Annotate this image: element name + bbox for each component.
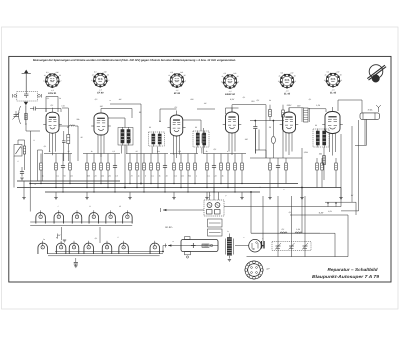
svg-text:2: 2 bbox=[184, 80, 186, 83]
Blaupunkt logo bbox=[367, 65, 386, 83]
wire bus y233 bbox=[251, 232, 320, 234]
svg-text:240: 240 bbox=[55, 71, 59, 74]
value label row 1 bbox=[42, 174, 44, 177]
value label row 11 bbox=[138, 174, 140, 177]
ground under left capacitor bbox=[20, 177, 23, 179]
measurement note text bbox=[33, 59, 236, 62]
value label row 6 bbox=[94, 174, 97, 177]
svg-text:b: b bbox=[228, 230, 229, 233]
wire transformer to rectifier bbox=[235, 245, 249, 247]
svg-text:0: 0 bbox=[221, 81, 222, 84]
vibrator chopper block bbox=[181, 237, 218, 259]
svg-text:300: 300 bbox=[87, 174, 90, 177]
svg-text:a: a bbox=[173, 241, 174, 243]
tube socket V4 (EABC 80) bbox=[221, 72, 239, 96]
svg-text:21V: 21V bbox=[250, 100, 255, 103]
svg-text:5k: 5k bbox=[42, 174, 44, 177]
ground g8 bbox=[268, 198, 271, 200]
svg-text:6,3: 6,3 bbox=[94, 71, 96, 74]
schematic border frame bbox=[9, 56, 391, 282]
trimmer dashed box bbox=[272, 242, 311, 251]
left verticals bbox=[37, 150, 39, 181]
svg-text:1k: 1k bbox=[279, 75, 281, 78]
car antenna mast bbox=[22, 70, 31, 92]
resistor R20 bbox=[206, 154, 209, 188]
svg-text:30: 30 bbox=[166, 174, 168, 177]
svg-text:2: 2 bbox=[117, 236, 119, 239]
Bf1 bottom stubs bbox=[151, 147, 153, 154]
svg-text:4: 4 bbox=[34, 183, 35, 186]
vibrator feeder verticals bbox=[209, 192, 211, 200]
wire arrow feed y245 bbox=[166, 244, 182, 248]
svg-text:Messungen der Spannungen und S: Messungen der Spannungen und Ströme wurd… bbox=[33, 59, 236, 62]
resistor R13 bbox=[150, 154, 153, 184]
resistor R23 bbox=[227, 154, 230, 188]
svg-text:Gl. 6V~: Gl. 6V~ bbox=[165, 226, 174, 229]
svg-text:0,5: 0,5 bbox=[95, 98, 98, 101]
value label row 2 bbox=[56, 174, 58, 177]
svg-text:35: 35 bbox=[81, 136, 83, 139]
wires from tube Rö2 pins bbox=[98, 135, 104, 157]
svg-text:2: 2 bbox=[59, 80, 61, 83]
svg-text:1k: 1k bbox=[92, 74, 94, 77]
choke bump 2 bbox=[295, 232, 302, 233]
svg-text:z: z bbox=[283, 189, 285, 191]
svg-text:6,3: 6,3 bbox=[171, 71, 173, 74]
svg-text:2: 2 bbox=[60, 246, 62, 249]
wire Rö1 side stub bbox=[46, 96, 58, 98]
value label 0,1 bbox=[51, 104, 54, 107]
wire under band filter bbox=[323, 147, 325, 180]
capacitor C3 bbox=[61, 154, 65, 193]
svg-text:4: 4 bbox=[93, 216, 94, 219]
trimmer T3 bbox=[302, 196, 308, 257]
bus junction dots bbox=[40, 183, 41, 184]
resistor R16 bbox=[173, 154, 176, 184]
value label row 13 bbox=[151, 174, 153, 177]
wire over Rö3 bbox=[160, 108, 177, 110]
svg-text:30: 30 bbox=[107, 74, 109, 77]
value label row 18 bbox=[188, 174, 191, 177]
svg-text:6,3V: 6,3V bbox=[230, 98, 235, 101]
svg-text:6,3: 6,3 bbox=[327, 71, 329, 74]
bus line y183.5 bbox=[30, 183, 298, 185]
wire row2 bus lines bbox=[55, 251, 163, 253]
electrolytic oval at 273 bbox=[272, 121, 274, 137]
value label row 7 bbox=[101, 174, 104, 177]
tube Rö2 bbox=[91, 113, 111, 135]
svg-text:2: 2 bbox=[340, 79, 342, 82]
wires from tube Rö5 pins bbox=[286, 133, 292, 155]
svg-text:8: 8 bbox=[145, 174, 146, 177]
choke coil L5 bbox=[302, 108, 310, 122]
value label 6,3V bbox=[230, 98, 235, 101]
resistor R30 bbox=[321, 158, 324, 188]
value label row 19 bbox=[196, 174, 197, 177]
value label 25 bbox=[268, 126, 272, 129]
ground row2 bbox=[74, 265, 77, 267]
ground g10 bbox=[339, 198, 342, 200]
svg-text:0: 0 bbox=[278, 80, 279, 83]
resistor R7 bbox=[100, 154, 103, 184]
value label row 4 bbox=[70, 174, 73, 177]
IF transformer Bf1 bbox=[149, 132, 165, 146]
ground g9 bbox=[300, 198, 303, 200]
rail under Rö1 bbox=[44, 153, 72, 155]
svg-text:50k: 50k bbox=[188, 174, 191, 177]
resistor R1 bbox=[40, 154, 43, 184]
plug arrow into receiver bbox=[24, 102, 28, 125]
svg-text:Blaupunkt-Autosuper 7 A 79: Blaupunkt-Autosuper 7 A 79 bbox=[312, 274, 380, 279]
value label 1M bbox=[245, 138, 248, 141]
value label row 20 bbox=[207, 174, 209, 177]
speaker socket bbox=[245, 261, 264, 280]
svg-text:240: 240 bbox=[179, 71, 183, 74]
svg-text:1k: 1k bbox=[222, 75, 224, 78]
resistor R6 bbox=[93, 154, 96, 193]
oscillator coil pack L2 bbox=[118, 128, 133, 146]
wire electrolytic up bbox=[262, 196, 264, 241]
coil pack K10 row2 bbox=[84, 241, 94, 254]
wire over Rö4 stub bbox=[226, 107, 239, 109]
connector dots near x330 bbox=[327, 202, 329, 204]
coil pack K9 row2 bbox=[69, 241, 79, 254]
svg-text:2: 2 bbox=[237, 81, 239, 84]
svg-text:6,3: 6,3 bbox=[281, 72, 283, 75]
svg-text:2: 2 bbox=[294, 80, 296, 83]
svg-text:0,1: 0,1 bbox=[51, 104, 54, 107]
rail under Rö5 bbox=[250, 157, 302, 159]
wires from tube Rö4 pins bbox=[229, 133, 235, 155]
svg-text:-1,5: -1,5 bbox=[99, 88, 102, 91]
value label 5k bbox=[159, 120, 162, 123]
svg-text:50k: 50k bbox=[77, 118, 80, 121]
coil pack K7 row2 bbox=[38, 241, 48, 254]
wire vertical x341 upper bbox=[340, 134, 342, 207]
wire left vertical to coil row bbox=[29, 181, 31, 212]
svg-text:0,1: 0,1 bbox=[44, 145, 47, 148]
wire vertical x302 long bbox=[301, 148, 303, 233]
bus line y181 bbox=[17, 180, 120, 182]
band filter Bf3 bbox=[313, 129, 329, 147]
svg-text:30: 30 bbox=[184, 74, 186, 77]
resistor R31 bbox=[335, 158, 338, 188]
wire row1 lower line bbox=[30, 225, 132, 227]
resistor R4 bbox=[69, 154, 72, 184]
Bf2 bottom stubs bbox=[196, 148, 198, 154]
wire vertical x365 from fuse bbox=[364, 120, 366, 146]
tube socket V3 (EF 89) bbox=[168, 71, 186, 95]
svg-text:0,5: 0,5 bbox=[115, 174, 117, 177]
svg-text:240: 240 bbox=[103, 71, 107, 74]
trimmer T2 bbox=[289, 196, 295, 257]
capacitor drop at 255 bbox=[254, 121, 256, 127]
coil pack K5 row1 bbox=[106, 210, 116, 223]
aerial stub right bbox=[376, 105, 381, 112]
trimmer T1 bbox=[275, 196, 281, 257]
relay box2 bbox=[208, 229, 223, 236]
coil pack K8 row2 bbox=[56, 241, 66, 254]
wire antenna to mixer grid bbox=[25, 123, 27, 131]
resistor R8 bbox=[107, 154, 110, 188]
value label row 12 bbox=[145, 174, 146, 177]
value label row 17 bbox=[181, 174, 184, 177]
value label row 3 bbox=[64, 174, 66, 177]
tube socket V5 (EL 95) bbox=[278, 72, 296, 96]
resistor R17 bbox=[180, 154, 183, 188]
svg-text:1k: 1k bbox=[168, 74, 170, 77]
svg-text:25: 25 bbox=[94, 174, 97, 177]
wire row1 baseline bbox=[30, 221, 132, 223]
bus line y187.5 bbox=[17, 187, 341, 189]
resistor R28 bbox=[285, 158, 288, 184]
svg-text:1M: 1M bbox=[100, 105, 103, 108]
svg-text:0: 0 bbox=[43, 80, 44, 83]
wires from tube Rö3 pins bbox=[174, 136, 180, 158]
svg-text:0,1: 0,1 bbox=[282, 228, 285, 231]
coil pack K4 row1 bbox=[89, 210, 99, 223]
svg-text:4: 4 bbox=[88, 246, 89, 249]
rail under Rö4 bbox=[203, 153, 246, 155]
value label row 14 bbox=[159, 174, 161, 177]
svg-text:6,3: 6,3 bbox=[224, 72, 226, 75]
svg-text:1k: 1k bbox=[91, 150, 93, 153]
svg-text:0,1: 0,1 bbox=[47, 97, 50, 100]
coil pack K2 row1 bbox=[54, 210, 64, 223]
rail right of Rö4 bbox=[250, 120, 284, 122]
wire Rö5 to choke bbox=[289, 107, 304, 109]
svg-text:5k: 5k bbox=[49, 150, 51, 153]
tube top stubs bbox=[52, 108, 54, 113]
svg-text:6: 6 bbox=[127, 216, 128, 219]
coil pack K12 row2 bbox=[119, 241, 129, 254]
rectifier socket bbox=[249, 239, 265, 252]
svg-text:10k: 10k bbox=[101, 174, 104, 177]
svg-text:0: 0 bbox=[91, 79, 92, 82]
value label 0,1 bbox=[214, 148, 217, 151]
svg-text:6: 6 bbox=[123, 246, 124, 249]
svg-text:ECH 81: ECH 81 bbox=[48, 92, 57, 95]
svg-text:30: 30 bbox=[340, 74, 342, 77]
svg-text:EL 95: EL 95 bbox=[284, 93, 291, 96]
wire long vertical x141 bbox=[140, 104, 142, 184]
wire choke to Rö6 bbox=[308, 108, 326, 110]
wire vertical x78 bbox=[77, 126, 79, 161]
svg-text:1k: 1k bbox=[325, 74, 327, 77]
svg-text:0: 0 bbox=[324, 79, 325, 82]
resistor R29 bbox=[316, 158, 319, 188]
svg-text:6k: 6k bbox=[222, 174, 224, 177]
resistor R25 bbox=[241, 154, 244, 184]
svg-text:2: 2 bbox=[107, 79, 109, 82]
value label 1,2k bbox=[316, 104, 321, 107]
svg-text:0,1: 0,1 bbox=[214, 148, 217, 151]
resistor R2 bbox=[55, 154, 58, 188]
tube socket V1 (ECH 81) bbox=[43, 71, 61, 95]
svg-text:30n: 30n bbox=[319, 152, 322, 155]
svg-text:4: 4 bbox=[227, 150, 228, 153]
svg-text:-1,5: -1,5 bbox=[286, 89, 289, 92]
svg-text:3: 3 bbox=[74, 246, 75, 249]
svg-text:-1,5: -1,5 bbox=[175, 89, 178, 92]
svg-text:5: 5 bbox=[260, 186, 261, 189]
IF transformer Bf2 bbox=[193, 131, 209, 147]
svg-text:2,5V: 2,5V bbox=[327, 210, 332, 213]
coil pack K11 row2 bbox=[102, 241, 112, 254]
svg-text:7,5k: 7,5k bbox=[61, 104, 64, 107]
tube Rö3 bbox=[167, 115, 185, 136]
svg-text:0,5: 0,5 bbox=[178, 150, 180, 153]
electrolytic capacitor block bbox=[262, 238, 265, 249]
resistor R-a between tubes bbox=[67, 108, 69, 135]
resistor left of Rö4 bbox=[202, 134, 205, 143]
capacitor C9 bbox=[113, 154, 117, 193]
svg-text:1n: 1n bbox=[43, 238, 45, 241]
resistor R22 bbox=[220, 154, 223, 184]
ground stubs from bus bbox=[55, 192, 57, 198]
svg-text:5: 5 bbox=[110, 216, 111, 219]
svg-text:240: 240 bbox=[335, 71, 339, 74]
fuse holder bbox=[360, 113, 380, 120]
antenna series capacitor bbox=[30, 107, 44, 111]
relay box1 bbox=[208, 219, 223, 227]
ground g3 bbox=[85, 198, 88, 200]
value label row 8 bbox=[107, 174, 111, 177]
wire top bus over Rö4 bbox=[232, 104, 266, 106]
wire x335 to bus233 bbox=[320, 232, 335, 234]
switch box left bbox=[14, 145, 22, 157]
svg-text:5: 5 bbox=[107, 246, 108, 249]
choke bump 1 bbox=[280, 232, 287, 233]
resistor R11 bbox=[136, 154, 139, 188]
ground g2 bbox=[54, 198, 57, 200]
wires from tube Rö6 pins bbox=[330, 134, 336, 156]
svg-text:25: 25 bbox=[67, 150, 70, 153]
svg-text:0,2: 0,2 bbox=[112, 150, 114, 153]
svg-text:0,1: 0,1 bbox=[56, 174, 58, 177]
choke coil left bbox=[23, 146, 25, 154]
value label 0,1 bbox=[175, 106, 178, 109]
value label 50 bbox=[67, 126, 70, 129]
resistor R10 bbox=[129, 154, 132, 184]
svg-text:0,1: 0,1 bbox=[309, 98, 312, 101]
tube Rö4 bbox=[223, 112, 242, 133]
resistor above rail bbox=[269, 110, 272, 117]
svg-text:20: 20 bbox=[135, 150, 138, 153]
svg-text:250V: 250V bbox=[286, 104, 292, 107]
wire vertical x352 bbox=[351, 126, 353, 202]
ground g1 bbox=[22, 198, 25, 200]
value label row 21 bbox=[214, 174, 217, 177]
value label 30 bbox=[139, 111, 142, 114]
svg-text:0,1: 0,1 bbox=[175, 106, 178, 109]
tube socket V6 (EL 95) bbox=[324, 71, 342, 95]
svg-text:1: 1 bbox=[42, 246, 43, 249]
svg-text:3: 3 bbox=[77, 216, 78, 219]
ground g7 bbox=[240, 198, 243, 200]
wires from tube Rö1 pins bbox=[50, 133, 56, 155]
svg-text:x: x bbox=[209, 195, 211, 197]
svg-text:1,2M: 1,2M bbox=[304, 151, 309, 154]
svg-text:2k: 2k bbox=[268, 99, 271, 102]
tube Rö5 bbox=[280, 112, 299, 133]
value label 1M bbox=[100, 105, 103, 108]
wire fuse down bbox=[366, 119, 368, 145]
svg-text:1M: 1M bbox=[245, 138, 248, 141]
resistor R14 bbox=[157, 154, 160, 188]
svg-text:Reparatur – Schaltbild: Reparatur – Schaltbild bbox=[328, 267, 378, 272]
svg-text:0,1: 0,1 bbox=[95, 237, 98, 240]
svg-text:5k: 5k bbox=[159, 174, 161, 177]
svg-text:30: 30 bbox=[237, 75, 239, 78]
svg-text:1: 1 bbox=[40, 216, 41, 219]
svg-text:Si 8A: Si 8A bbox=[368, 109, 373, 112]
svg-text:0,1: 0,1 bbox=[289, 211, 292, 214]
resistor R24 bbox=[234, 154, 237, 193]
svg-text:50: 50 bbox=[64, 174, 66, 177]
resistor R12 bbox=[143, 154, 146, 193]
svg-text:EF 89: EF 89 bbox=[97, 92, 104, 95]
resistor under band filter bbox=[323, 156, 326, 165]
wire vertical x75 row2 bbox=[75, 258, 77, 262]
resistor R18 bbox=[187, 154, 190, 193]
tube socket V2 (EF 89) bbox=[91, 71, 109, 95]
resistor R5 bbox=[86, 154, 89, 188]
svg-text:4: 4 bbox=[196, 174, 197, 177]
svg-text:1k: 1k bbox=[44, 74, 46, 77]
value label Si 8A bbox=[368, 109, 373, 112]
ground row1 bbox=[63, 239, 66, 241]
wire Rö3 to Bf2 bbox=[183, 119, 193, 121]
svg-text:0,2: 0,2 bbox=[174, 174, 176, 177]
value label row 15 bbox=[166, 174, 168, 177]
capacitor left lower bbox=[20, 171, 24, 173]
antenna trimmer capacitor bbox=[13, 111, 20, 120]
wire vertical x348 right bbox=[347, 215, 349, 257]
coil pack K3 row1 bbox=[72, 210, 82, 223]
antenna plug dashed box bbox=[13, 92, 42, 102]
wire vertical x61 row1 bbox=[61, 227, 63, 240]
variable core arrow bbox=[127, 140, 131, 144]
tube Rö1 bbox=[43, 112, 62, 133]
resistor R19 bbox=[194, 154, 197, 184]
inter-row vertical x100 bbox=[99, 227, 101, 243]
svg-text:0,1: 0,1 bbox=[243, 96, 246, 99]
capacitor C15 bbox=[163, 154, 167, 193]
wire row2 to vibrator bbox=[162, 246, 164, 252]
svg-text:30: 30 bbox=[294, 75, 296, 78]
svg-text:-1,5: -1,5 bbox=[51, 89, 54, 92]
rail under Rö3 bbox=[170, 153, 198, 155]
svg-text:EF 89: EF 89 bbox=[174, 92, 181, 95]
wire oscillator down bbox=[124, 145, 126, 188]
left switch vertical bbox=[13, 156, 15, 188]
coil pack K13 separate bbox=[150, 243, 160, 254]
value label row 16 bbox=[174, 174, 176, 177]
wire Rö2 to oscillator bbox=[108, 117, 125, 119]
shielded cable arc bbox=[19, 106, 21, 124]
svg-text:-1,5: -1,5 bbox=[229, 90, 232, 93]
vibrator unit dashed box bbox=[204, 200, 224, 216]
wire arrow feed y210 bbox=[161, 208, 205, 212]
resistor at 283 bbox=[282, 110, 285, 117]
svg-text:2M: 2M bbox=[107, 174, 111, 177]
svg-text:30: 30 bbox=[59, 74, 61, 77]
wire y206.6 right bbox=[224, 206, 341, 208]
coupling box verticals bbox=[255, 130, 257, 154]
svg-text:0,1: 0,1 bbox=[151, 174, 153, 177]
svg-text:c: c bbox=[244, 237, 245, 239]
